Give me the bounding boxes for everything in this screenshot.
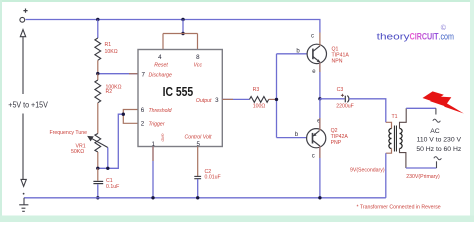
ground symbol [19, 198, 28, 212]
svg-text:Discharge: Discharge [149, 72, 172, 78]
wire: primary bottom stub [400, 149, 406, 169]
lightning bolt graphic [423, 91, 464, 113]
junction dot emitters/output node [318, 97, 321, 100]
capacitor C3 (polarized) [345, 96, 349, 103]
wire: R3 to base node [269, 98, 277, 100]
junction dot supply branch/top rail [181, 18, 184, 21]
svg-text:GND: GND [161, 134, 165, 142]
AC terminal bottom tilde [434, 157, 442, 160]
svg-text:R3: R3 [253, 87, 260, 93]
wire: secondary bottom stub [386, 149, 392, 154]
wire: C3 to transformer secondary top [349, 99, 386, 123]
wire: to pin 7 [100, 73, 139, 75]
wire: supply drop to IC bus [182, 20, 184, 34]
transformer T1 core [394, 126, 396, 152]
svg-text:50KΩ: 50KΩ [71, 149, 84, 155]
wire: pin 1 to ground [152, 147, 154, 198]
svg-text:8: 8 [196, 54, 200, 61]
svg-text:CIRCUIT: CIRCUIT [410, 32, 439, 42]
junction dot wiper [106, 167, 109, 170]
transistor Q2 [307, 129, 326, 148]
svg-text:c: c [311, 34, 314, 40]
svg-text:AC: AC [430, 128, 440, 135]
svg-text:+5V to +15V: +5V to +15V [8, 101, 48, 110]
svg-text:230V(Primary): 230V(Primary) [406, 174, 440, 180]
wire: primary top stub [400, 108, 407, 128]
wire: R1 top [97, 20, 99, 39]
wire: primary top to AC terminal [406, 107, 436, 109]
wire: R2 to VR1 [97, 103, 99, 134]
svg-text:10KΩ: 10KΩ [105, 49, 118, 55]
svg-text:C3: C3 [337, 87, 344, 93]
svg-text:c: c [312, 153, 315, 159]
wire: top rail [26, 20, 320, 33]
junction dot R1/top rail [96, 18, 99, 21]
svg-text:Control Volt: Control Volt [185, 134, 212, 140]
junction dot R1/R2/pin7 [96, 72, 99, 75]
C3 plus mark [341, 94, 344, 97]
svg-text:9V(Secondary): 9V(Secondary) [350, 168, 385, 174]
wire: R1 bottom stub [97, 60, 99, 73]
wire: pin4-pin8 bus [163, 34, 198, 50]
page border top [0, 0, 474, 2]
svg-text:R2: R2 [106, 89, 113, 95]
svg-text:©: © [441, 24, 447, 32]
terminal J1 (+ supply input) [20, 9, 28, 23]
svg-text:7: 7 [142, 71, 146, 78]
svg-text:2: 2 [141, 121, 145, 128]
resistor R3 [250, 97, 269, 103]
wire: output node to C3 [320, 98, 345, 100]
wire: Q1 base [277, 53, 308, 55]
svg-text:50 Hz to 60 Hz: 50 Hz to 60 Hz [416, 146, 462, 153]
transformer T1 primary winding [400, 129, 403, 149]
wire: secondary bottom to ground rail [385, 153, 387, 198]
capacitor C2 [194, 176, 201, 178]
wire: Q2 collector to ground [319, 146, 321, 198]
svg-text:4: 4 [158, 54, 162, 61]
page border left [0, 0, 2, 222]
svg-text:0.01uF: 0.01uF [205, 174, 221, 180]
svg-text:Vcc: Vcc [193, 63, 202, 69]
wire: Q1 collector stub [319, 33, 321, 46]
svg-text:Threshold: Threshold [149, 108, 173, 114]
wire: wiper drop [107, 148, 109, 169]
junction dot pin1/ground rail [151, 196, 154, 199]
svg-text:Output: Output [196, 98, 212, 104]
arrow down (supply polarity) [21, 179, 26, 186]
wire: Q2 emitter up [319, 99, 321, 129]
svg-text:Reset: Reset [154, 63, 168, 69]
resistor R2 [95, 80, 101, 103]
svg-text:* Transformer Connected in Rev: * Transformer Connected in Reverse [357, 204, 441, 210]
transformer T1 secondary winding [389, 129, 392, 149]
AC terminal top stub [435, 108, 437, 114]
svg-text:R1: R1 [105, 42, 112, 48]
junction dot threshold/trigger [122, 113, 125, 116]
svg-text:PNP: PNP [331, 140, 342, 146]
svg-text:110 V to 230 V: 110 V to 230 V [417, 137, 462, 144]
svg-text:NPN: NPN [332, 59, 343, 65]
potentiometer VR1 body [95, 134, 101, 153]
resistor R1 [95, 38, 101, 60]
page border right [470, 0, 474, 222]
svg-text:Frequency Tune: Frequency Tune [50, 130, 88, 136]
wire: Q2 base [277, 137, 307, 139]
svg-text:Trigger: Trigger [149, 122, 165, 128]
AC terminal top tilde [433, 119, 441, 122]
svg-text:T1: T1 [391, 114, 397, 120]
wire: primary bottom to AC terminal [406, 167, 437, 169]
wire: R2 top stub [97, 74, 99, 80]
svg-text:C1: C1 [106, 178, 113, 184]
transistor Q1 [307, 44, 326, 63]
wire: base bus vertical [276, 54, 278, 138]
svg-text:.com: .com [439, 32, 455, 42]
potentiometer VR1 wiper arrow [88, 137, 108, 148]
node marker above ground [23, 193, 25, 195]
AC terminal bottom stub [436, 161, 438, 168]
ground rail wire [24, 197, 386, 199]
svg-text:theory: theory [377, 32, 410, 42]
IC U1 555 box [138, 50, 222, 147]
wire: C1 bottom stub [97, 184, 99, 198]
svg-text:6: 6 [141, 107, 145, 114]
page border bottom [0, 216, 474, 223]
svg-text:2200uF: 2200uF [336, 104, 354, 110]
capacitor C1 [93, 181, 103, 183]
wire: VR1 bottom stub [97, 152, 99, 168]
svg-text:100Ω: 100Ω [253, 103, 266, 109]
junction dot IC supply bus [181, 32, 184, 35]
junction dot C2/ground rail [196, 196, 199, 199]
wire: pin 3 output [222, 98, 249, 100]
junction dot Q2 collector/ground rail [318, 196, 321, 199]
wire: pin 5 to C2 [197, 147, 199, 177]
junction dot VR1 bottom [96, 167, 99, 170]
wire: Q1 emitter down [319, 63, 321, 99]
svg-text:5: 5 [196, 141, 200, 148]
wire: C2 to ground [197, 179, 199, 198]
junction dot base bus [275, 98, 278, 101]
wire: secondary top stub [386, 122, 392, 128]
junction dot C1/ground rail [96, 196, 99, 199]
svg-text:3: 3 [215, 97, 219, 104]
wire: pins 6/2 link [123, 110, 138, 124]
wire: node row to riser [98, 114, 124, 168]
svg-text:0.1uF: 0.1uF [106, 184, 119, 190]
arrow up (supply polarity) [20, 30, 25, 180]
svg-text:IC 555: IC 555 [163, 85, 194, 99]
wire: C1 top stub [97, 168, 99, 181]
